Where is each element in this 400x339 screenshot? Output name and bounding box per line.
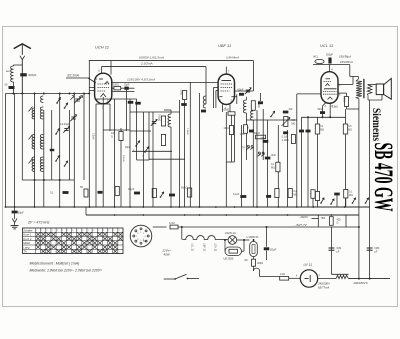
resistor 425 Ohm <box>329 217 333 226</box>
svg-text:0,3MΩ: 0,3MΩ <box>158 114 161 121</box>
output transformer primary winding <box>356 79 362 99</box>
wire y130 segment <box>103 129 130 131</box>
wire vertical x103 cathode <box>102 113 104 207</box>
wire heater chain <box>222 239 228 241</box>
wire vertical x226 diode return <box>225 112 227 207</box>
svg-text:8: 8 <box>137 233 138 235</box>
wire chassis bus y207 <box>6 206 370 208</box>
wire horizontal y151.3 <box>132 150 172 152</box>
tube UCL11 grid lead left <box>297 93 321 95</box>
svg-text:25pF: 25pF <box>124 84 130 87</box>
coil L5 rf short <box>40 107 43 119</box>
svg-text:21Ω: 21Ω <box>280 272 285 276</box>
svg-text:10nF: 10nF <box>271 154 277 157</box>
mains switch <box>164 278 174 280</box>
resistor 0,1M UCL <box>315 124 319 134</box>
svg-text:Meßwerte: 1.Wert bei 220V~ 2.: Meßwerte: 1.Wert bei 220V~ 2.Wert bei 22… <box>30 269 103 273</box>
coil L6 rf long <box>40 135 43 150</box>
svg-text:TA: TA <box>23 250 27 254</box>
wire vertical x66.3 <box>69 110 71 180</box>
tube UY11 internals <box>305 278 309 280</box>
speaker cone <box>384 78 392 99</box>
svg-text:UBF 11: UBF 11 <box>218 43 231 48</box>
svg-text:6,3Ω: 6,3Ω <box>169 221 175 225</box>
wire screen supply bus 2,3mA <box>102 66 207 68</box>
switch contact S7 <box>145 147 149 152</box>
tube socket diagram circle <box>130 225 152 247</box>
wire UCH11 second output <box>112 91 135 93</box>
wire vertical x82 <box>83 94 85 181</box>
svg-text:UBF 11: UBF 11 <box>202 243 205 252</box>
capacitor 20uF electrolytic <box>266 227 268 247</box>
wire transformer primary bottom <box>358 99 360 109</box>
svg-text:2: 2 <box>143 233 144 235</box>
resistor 5k vertical <box>161 135 165 146</box>
svg-text:1: 1 <box>140 232 141 234</box>
tube UCH11 pin 6 top lead <box>101 67 103 74</box>
resistor 0,3M vertical <box>161 116 165 126</box>
resistor 1M AVC <box>229 126 233 135</box>
wire input node horizontal <box>6 93 90 95</box>
resistor 1M diode load 2 <box>243 125 247 134</box>
wire vertical x184.6 <box>184 100 186 207</box>
IF transformer 2 coil <box>203 96 206 108</box>
padder capacitor <box>50 149 55 151</box>
wire vertical x241.5 <box>241 125 243 207</box>
svg-text:TA: TA <box>242 147 245 150</box>
junction dots heater bus <box>114 214 116 216</box>
tube UCL11 anode lead to transformer <box>338 83 353 85</box>
tube UCH11 envelope <box>95 73 112 104</box>
svg-text:MΩ: MΩ <box>320 128 324 131</box>
capacitor blob x308 <box>306 130 311 133</box>
coil L7 rf med <box>40 157 43 172</box>
TA pickup terminals <box>247 145 249 147</box>
switch contact TA radio <box>271 111 275 116</box>
wire vertical x74.3 <box>73 94 75 208</box>
svg-text:UCH 11: UCH 11 <box>95 45 109 50</box>
oscillator coil L6 <box>168 114 171 127</box>
capacitor 60pF diode <box>236 94 238 104</box>
trimmer capacitor det <box>246 89 250 91</box>
svg-text:60pF: 60pF <box>18 210 24 214</box>
wire heater bus y215 <box>86 214 359 216</box>
svg-text:MΩ: MΩ <box>348 128 352 131</box>
wire vertical x297 <box>296 94 298 207</box>
wire speaker top lead <box>367 83 369 86</box>
capacitor blob IF2 <box>201 110 206 113</box>
wire vertical x96 <box>95 104 97 207</box>
svg-text:2,5kΩ: 2,5kΩ <box>332 107 338 109</box>
resistor mains dropper row a <box>311 190 315 199</box>
wire speaker bottom lead <box>367 95 369 100</box>
capacitor filter 2 plates <box>367 247 373 249</box>
wire horizontal y162 af <box>226 161 234 163</box>
resistor 100 Ohm anode stopper <box>112 87 114 89</box>
wire vertical x143.4 <box>142 112 144 207</box>
resistor 0,3M bottom x116 <box>115 187 119 196</box>
capacitor 300pF antenna series <box>20 73 27 76</box>
svg-text:(4C): (4C) <box>313 56 318 59</box>
resistor 50k AF <box>256 135 266 139</box>
wire UCL11 top node <box>313 64 350 66</box>
capacitor filter 1 plates <box>329 247 335 249</box>
svg-text:125/105V 4,5/3,5mA: 125/105V 4,5/3,5mA <box>127 78 155 82</box>
coil L3 antenna long <box>32 135 35 150</box>
tube UCH11 grids <box>98 83 110 85</box>
wire vertical x59.7 <box>59 94 61 208</box>
wire urdox parallel <box>224 240 226 251</box>
wire x213 segment <box>213 88 215 109</box>
switch contact mains b2 <box>331 199 334 204</box>
svg-text:4,9-20pF: 4,9-20pF <box>60 123 70 126</box>
svg-text:MΩ: MΩ <box>292 122 296 125</box>
wire vertical x51.7 <box>51 110 53 180</box>
thermal loop <box>253 266 255 271</box>
svg-text:UCL 11: UCL 11 <box>320 43 333 48</box>
resistor bottom x189.6 <box>188 188 192 197</box>
svg-text:0,1μF: 0,1μF <box>128 188 135 191</box>
wire vertical x257 <box>256 110 258 207</box>
switch contact S6 <box>136 141 140 146</box>
wire second rail <box>14 94 16 208</box>
wire y160 segment <box>137 159 149 161</box>
wire -26V line <box>312 218 319 220</box>
resistor 21 Ohm protection <box>280 277 289 281</box>
svg-text:60pF: 60pF <box>238 87 244 91</box>
tube UY11 envelope <box>300 270 317 287</box>
switch contact S3 <box>56 155 59 161</box>
wire horizontal y112 <box>130 111 180 113</box>
heater winding wavy <box>182 236 222 240</box>
wire vertical x246.4 <box>245 113 247 160</box>
switch tick T1 <box>29 107 33 112</box>
wire heater return <box>260 276 280 278</box>
switch contact x160 <box>161 192 164 197</box>
capacitor blob 50 <box>249 130 254 133</box>
tube UCH11 pin 2 lead <box>90 87 95 89</box>
tube UCL11 bottom leads <box>323 103 326 106</box>
speaker magnet body <box>376 84 383 95</box>
tube UBF11 pin 1 lead <box>214 87 219 89</box>
wire horizontal y120 AF <box>246 119 296 121</box>
trimmer capacitor antenna <box>75 98 79 100</box>
wire vertical x34.5 <box>34 94 36 208</box>
wire vertical x301.5 <box>301 117 303 207</box>
wire vertical x317.5 <box>317 134 319 207</box>
svg-text:AZ11: AZ11 <box>143 240 147 243</box>
wire vertical x287.5 <box>287 130 289 207</box>
wire regulator bottom to resistor <box>253 257 255 260</box>
svg-text:MΩ: MΩ <box>271 167 275 170</box>
svg-text:3nF: 3nF <box>289 108 294 111</box>
wire horizontal y180 <box>22 179 74 181</box>
capacitor 3nF <box>283 111 289 114</box>
tube UBF11 pin 7 top lead <box>225 67 227 75</box>
switch contact S1 <box>57 97 60 103</box>
capacitor blob a <box>128 101 134 104</box>
svg-text:SB 470 GW: SB 470 GW <box>369 143 398 212</box>
tube UY11 anode lead <box>318 278 336 280</box>
svg-text:200pF: 200pF <box>326 54 334 57</box>
trimmer capacitor IF1 <box>152 121 156 123</box>
switch contact below node a <box>71 96 75 100</box>
svg-text:Ω: Ω <box>111 136 113 139</box>
resistor 50 Ohm <box>84 189 88 197</box>
ground symbol earth <box>11 225 19 227</box>
wire vertical x89.5 osc anode <box>88 61 90 207</box>
resistor U8 2500 urdox <box>225 247 242 256</box>
svg-text:0,5MΩ: 0,5MΩ <box>222 109 229 112</box>
wire bottom psu rail <box>349 278 391 280</box>
resistor bottom x290 <box>288 189 292 198</box>
tube UBF11 diode plates <box>219 96 222 98</box>
wire vertical x130 <box>129 99 131 207</box>
svg-text:190/36μA: 190/36μA <box>339 55 351 59</box>
svg-text:UCL 11: UCL 11 <box>190 243 193 252</box>
capacitor blob bottom x172 <box>169 194 175 197</box>
tube UBF11 bottom leads <box>222 104 224 112</box>
tube UBF11 envelope <box>218 74 234 104</box>
capacitor 25pF <box>121 87 125 89</box>
wire vertical x43.8 <box>43 110 45 207</box>
wire screen bus drop <box>205 67 207 104</box>
wire vertical x120 <box>120 141 122 208</box>
tube UCH11 anode <box>99 78 103 80</box>
wire horizontal y159.2 <box>149 158 185 160</box>
IF transformer coil L7 <box>243 100 246 113</box>
wire regulator top <box>253 240 255 242</box>
svg-text:30pF: 30pF <box>125 147 131 149</box>
wire anode bus drop to UBF11 <box>253 61 255 91</box>
wire heater rail y227 <box>178 226 359 228</box>
wire feed to output transformer <box>349 65 351 77</box>
resistor 0,2M diode load <box>251 101 255 111</box>
output transformer secondary winding <box>367 85 372 95</box>
svg-text:MΩ: MΩ <box>294 194 298 197</box>
svg-text:1MΩ: 1MΩ <box>224 127 229 130</box>
wire vertical x278.3 <box>277 125 279 207</box>
wire grid line y104 <box>96 103 110 105</box>
resistor bottom x154 <box>152 189 156 198</box>
svg-text:2,3/2mA: 2,3/2mA <box>140 62 153 66</box>
svg-text:100Ω: 100Ω <box>113 84 119 87</box>
capacitor blob b <box>135 102 141 105</box>
negative rail box right side <box>345 215 347 227</box>
wire vertical x234.5 <box>234 112 236 162</box>
svg-text:1,9kΩ: 1,9kΩ <box>343 96 345 102</box>
resistor bottom x276 <box>275 189 279 198</box>
svg-text:3,2mA: 3,2mA <box>91 133 94 140</box>
svg-text:Ω: Ω <box>337 222 339 225</box>
svg-text:U 2600 PL: U 2600 PL <box>247 235 260 239</box>
negative rail box left side <box>317 215 319 227</box>
tube UCH11 anode top lead <box>110 61 112 75</box>
wire anode supply bus 63V <box>89 60 254 62</box>
wire vertical x136.6 <box>136 99 138 160</box>
terminal pair second <box>258 152 260 154</box>
svg-text:ANT: ANT <box>6 70 11 73</box>
resistor 300 Ohm heater <box>252 259 256 266</box>
svg-text:165/28mA: 165/28mA <box>340 60 353 64</box>
switch tick T3 <box>29 159 33 164</box>
wire y110 osc <box>164 109 171 111</box>
svg-text:7: 7 <box>136 236 137 238</box>
wire vertical x190.3 <box>189 82 191 110</box>
wire 25pF drop <box>126 90 128 131</box>
trimmer capacitor 4,9-20pF <box>64 128 68 130</box>
svg-text:UY 11: UY 11 <box>304 263 313 267</box>
wire vertical x114.6 <box>114 99 116 207</box>
coil L2 antenna short <box>32 108 35 119</box>
switch contact S2 <box>56 128 59 134</box>
wire drop to heater chain <box>181 227 183 240</box>
wire vertical x263.2 <box>262 109 264 160</box>
tube socket pins <box>140 228 142 230</box>
svg-text:0,3MΩ: 0,3MΩ <box>186 128 188 135</box>
wire speaker return down <box>369 100 371 279</box>
wire horizontal y117.3 under UCL <box>302 116 346 118</box>
wire vertical x153 <box>152 112 154 207</box>
antenna coupling coil L1 <box>14 64 23 66</box>
resistor 1M grid <box>183 91 187 100</box>
tube UCH11 bottom lead <box>102 104 104 113</box>
resistor 0,15M <box>276 162 280 172</box>
tube UCL11 cathode <box>328 97 333 100</box>
wire vertical x149 <box>148 112 150 160</box>
svg-text:50mΩ: 50mΩ <box>181 187 188 190</box>
trimmer capacitor rf <box>71 116 75 118</box>
svg-text:6Ω: 6Ω <box>245 260 248 262</box>
svg-text:- 26/2V: - 26/2V <box>299 215 310 219</box>
fuse resistor plates <box>332 273 349 275</box>
wire vertical x345.5 <box>345 134 347 207</box>
wire transformer secondary down <box>358 109 360 279</box>
svg-text:63/77mA: 63/77mA <box>318 285 329 289</box>
oval 4C fuse <box>315 59 324 63</box>
tube UCL11 triode section <box>326 78 331 80</box>
resistor 1,9k cathode UCL <box>345 97 349 107</box>
svg-text:ZF = 473 kHz: ZF = 473 kHz <box>27 221 50 225</box>
IF coil secondary <box>251 111 254 120</box>
output transformer core <box>363 79 365 98</box>
capacitor 50nF UCL blob <box>322 106 324 117</box>
resistor 100 Ohm cathode <box>119 132 123 141</box>
capacitor 50pF <box>9 86 15 89</box>
switch contact S5 <box>65 161 68 166</box>
wire vertical x267.6 <box>267 120 269 207</box>
svg-text:UCH 11: UCH 11 <box>214 243 217 252</box>
tube UCL11 screen lead <box>338 92 347 94</box>
wire screen feed 125V <box>111 81 218 83</box>
wire horizontal y131 <box>130 130 151 132</box>
resistor 0,5M UCL <box>343 124 347 134</box>
capacitor blob x100 <box>98 191 103 194</box>
capacitor blob mains <box>334 193 340 196</box>
svg-text:3: 3 <box>144 236 145 238</box>
wire left rail <box>5 94 7 208</box>
capacitor 50nF blob <box>240 195 246 198</box>
coil L4 antenna med <box>32 157 35 172</box>
svg-text:1MΩ: 1MΩ <box>180 90 183 95</box>
svg-text:63/55V 1,8/1,5mA: 63/55V 1,8/1,5mA <box>139 56 164 60</box>
capacitor coupling blob <box>181 103 187 106</box>
switch contact S4 <box>65 103 68 108</box>
wire vertical x216 <box>215 91 217 109</box>
resistor 0,5M top UBF <box>228 112 235 115</box>
svg-text:U8 2500: U8 2500 <box>224 257 234 261</box>
wire vertical x179.4 <box>178 100 180 207</box>
switch contact mains b <box>321 198 324 203</box>
svg-text:300Ω: 300Ω <box>257 262 263 265</box>
wire vertical x171 <box>170 131 172 207</box>
tube UCH11 cathode <box>101 94 106 98</box>
wire vertical x110 <box>109 104 111 131</box>
tube UCL11 output section grids <box>324 88 337 90</box>
switch contact mains e <box>366 198 369 203</box>
switch contact mains d <box>353 198 356 203</box>
capacitor 200pF blob <box>328 58 331 64</box>
tube UBF11 anode <box>222 80 232 82</box>
wire vertical x190 ext <box>189 110 191 207</box>
capacitor blob bottom x137 <box>134 192 140 195</box>
svg-text:200/180V F: 200/180V F <box>353 281 369 285</box>
wire vertical x231.5 <box>231 115 233 125</box>
svg-text:Meßinstrument : Multizet ( 1m: Meßinstrument : Multizet ( 1mA) <box>30 262 80 266</box>
svg-text:5000Ω: 5000Ω <box>122 155 124 162</box>
capacitor 10nF tone <box>265 157 271 160</box>
switch contact below node b <box>79 96 83 100</box>
wire vertical x331 psu <box>331 227 333 274</box>
svg-text:1,8V/4mA: 1,8V/4mA <box>226 56 239 60</box>
svg-text:0,1μF: 0,1μF <box>233 193 240 196</box>
svg-text:1MΩ: 1MΩ <box>240 134 245 136</box>
svg-text:300pF: 300pF <box>28 73 37 77</box>
svg-text:- 83/7,7V: - 83/7,7V <box>295 223 308 227</box>
capacitor 0,1uF <box>63 191 69 194</box>
capacitor blob x285 <box>283 131 288 134</box>
switch tick T2 <box>29 135 33 140</box>
wire AVC line y99 <box>96 98 137 100</box>
svg-text:6: 6 <box>137 239 138 241</box>
band switch table <box>23 228 124 254</box>
resistor 0,2M bottom right <box>344 189 348 198</box>
svg-text:5: 5 <box>140 240 141 242</box>
svg-text:19V/0,1A: 19V/0,1A <box>225 231 236 235</box>
resistor cathode bias UCL <box>315 192 319 201</box>
resistor 0,2M AF <box>291 135 295 144</box>
earth connection arrow <box>14 214 16 220</box>
wire vertical x308 <box>307 117 309 207</box>
antenna <box>14 44 31 49</box>
tube UCL11 envelope <box>321 72 338 104</box>
capacitor 60pF earth <box>14 207 16 211</box>
svg-text:20μF: 20μF <box>270 248 277 252</box>
band switch table X marks <box>36 232 40 236</box>
resistor 6,3 Ohm mains <box>153 226 167 228</box>
capacitor blob x301.5 <box>299 130 304 133</box>
wire vertical x199.5 AVC <box>199 93 201 207</box>
svg-text:MΩ: MΩ <box>349 194 353 197</box>
svg-text:75Ω: 75Ω <box>321 217 326 220</box>
svg-text:50nF: 50nF <box>318 108 324 111</box>
capacitor 5nF coupling <box>263 140 269 143</box>
capacitor blob x268 bottom <box>266 195 271 198</box>
capacitor blob right of UBF <box>258 101 263 104</box>
tube UBF11 grids <box>221 83 233 85</box>
svg-text:Siemens: Siemens <box>370 108 382 141</box>
volume potentiometer 0,5M <box>284 117 288 127</box>
